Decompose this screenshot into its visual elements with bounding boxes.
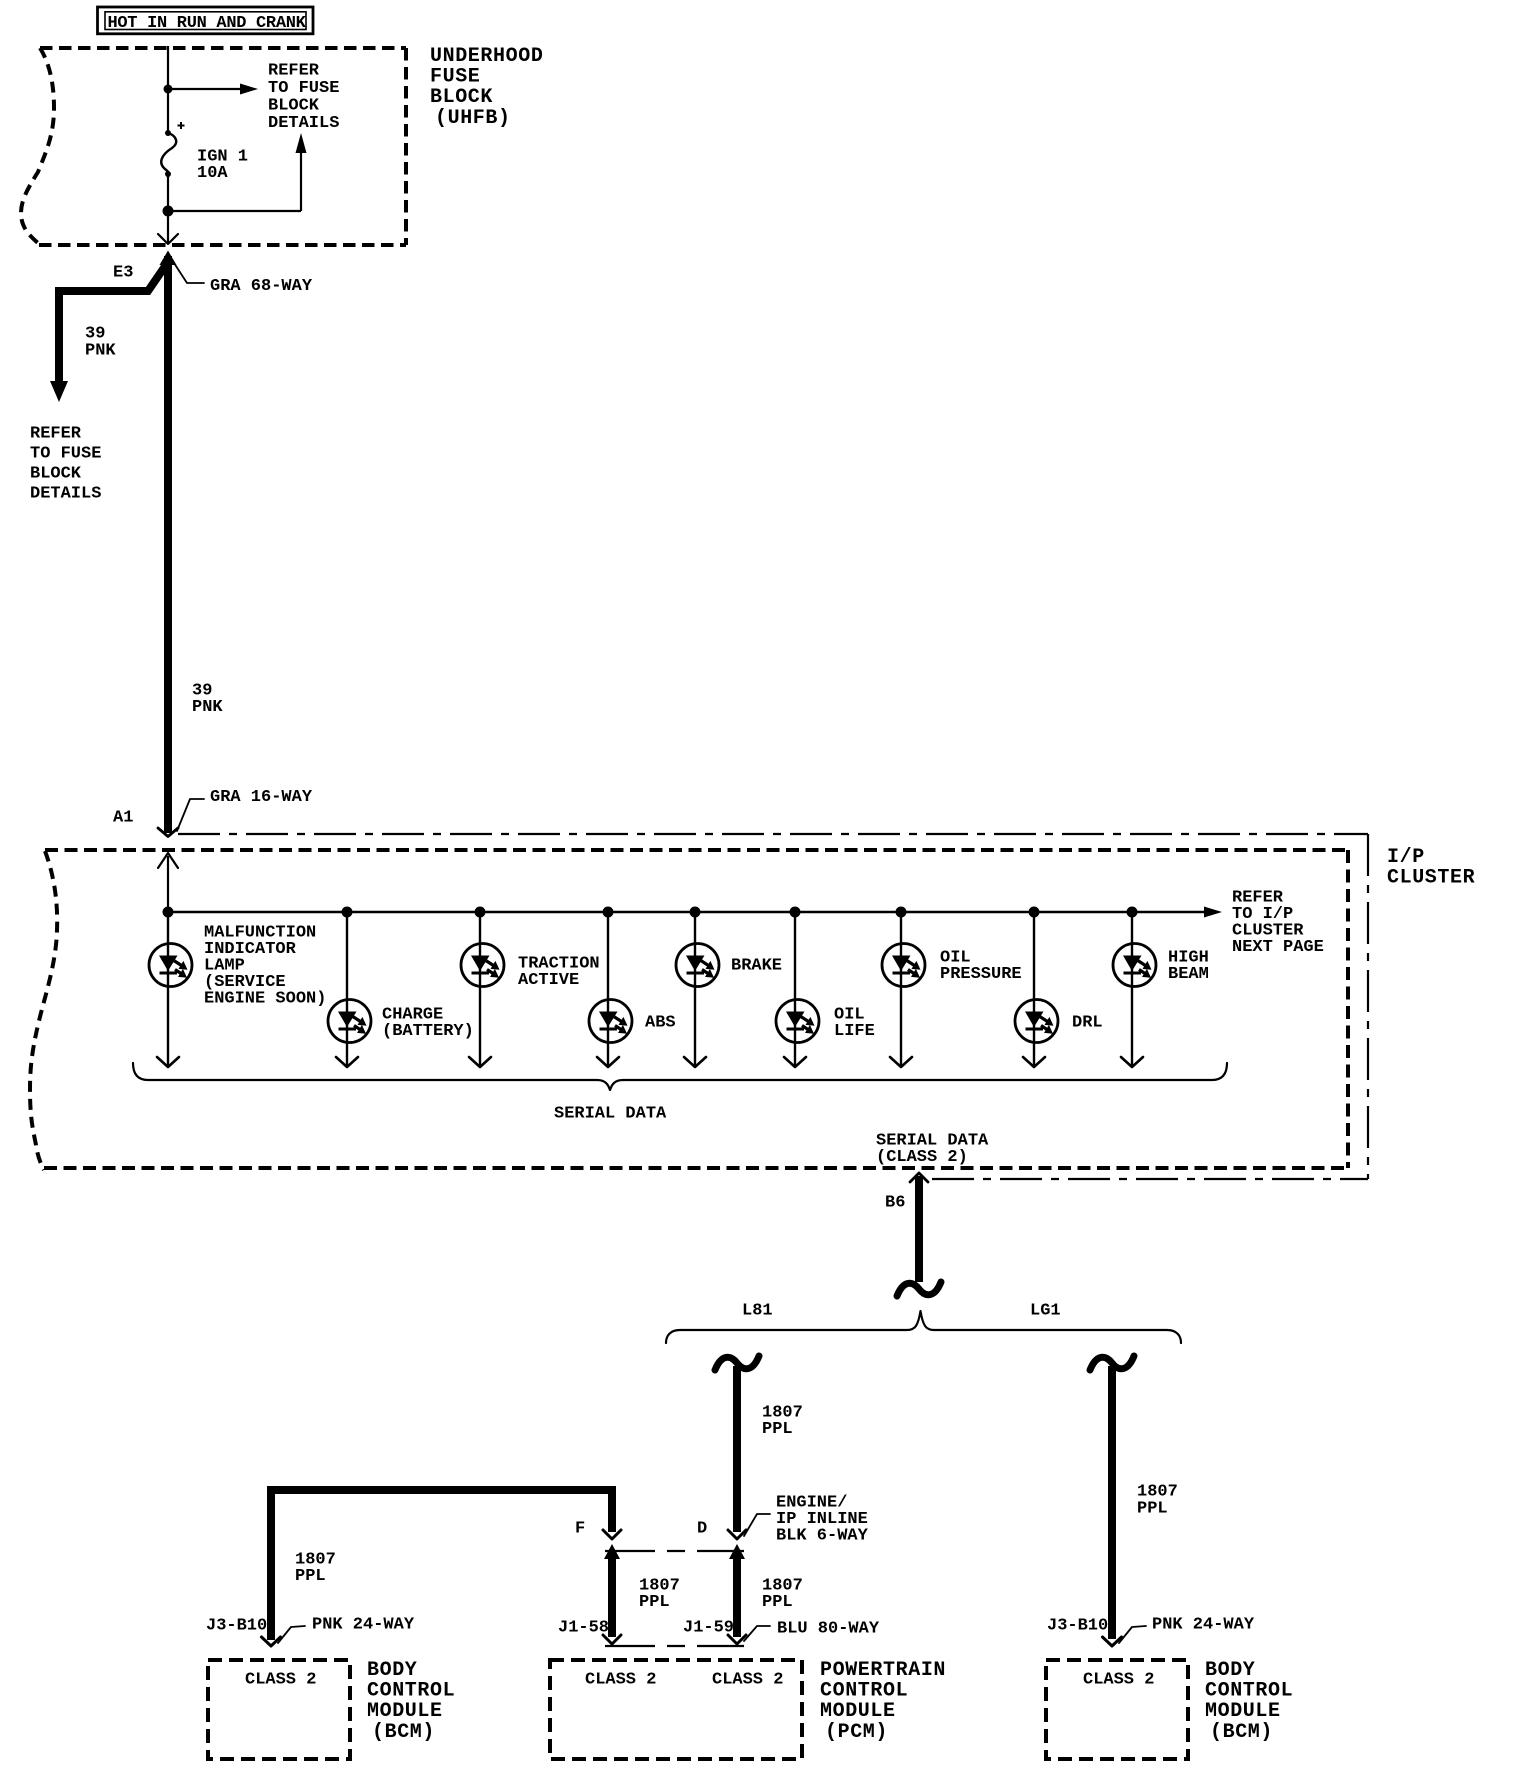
break tilde at B6 xyxy=(897,1282,941,1296)
brace splitting to L81 and LG1 xyxy=(666,1311,1181,1343)
svg-text:MODULE: MODULE xyxy=(820,1700,896,1723)
svg-text:PNK 24-WAY: PNK 24-WAY xyxy=(1152,1616,1255,1635)
svg-text:BLK 6-WAY: BLK 6-WAY xyxy=(776,1527,869,1546)
svg-text:PRESSURE: PRESSURE xyxy=(940,965,1022,984)
junction dot below fuse xyxy=(163,206,174,217)
svg-text:FUSE: FUSE xyxy=(430,66,480,89)
svg-text:GRA 16-WAY: GRA 16-WAY xyxy=(210,788,313,807)
svg-text:E3: E3 xyxy=(113,264,133,283)
svg-text:I/P: I/P xyxy=(1387,846,1425,869)
svg-text:HOT IN RUN AND CRANK: HOT IN RUN AND CRANK xyxy=(108,14,307,33)
bus junction node + wire for OIL LIFE xyxy=(790,907,801,918)
svg-text:POWERTRAIN: POWERTRAIN xyxy=(820,1659,946,1682)
bus junction node + wire for TRACTION xyxy=(475,907,486,918)
LG1 thick wire 1807 PPL xyxy=(1108,1366,1116,1639)
leader to PNK 24-WAY (right) xyxy=(1119,1626,1146,1643)
svg-text:SERIAL DATA: SERIAL DATA xyxy=(554,1105,667,1124)
svg-text:ENGINE SOON): ENGINE SOON) xyxy=(204,990,326,1009)
svg-text:B6: B6 xyxy=(885,1194,905,1213)
svg-text:(PCM): (PCM) xyxy=(825,1721,888,1744)
svg-text:F: F xyxy=(575,1520,585,1539)
svg-text:BLOCK: BLOCK xyxy=(268,97,320,116)
I/P cluster outer chain line xyxy=(178,833,1368,835)
svg-text:DETAILS: DETAILS xyxy=(268,114,339,133)
thick wire from B6 down xyxy=(915,1176,923,1282)
leader to GRA 68-WAY xyxy=(174,263,204,283)
svg-text:(UHFB): (UHFB) xyxy=(435,107,511,130)
svg-text:PNK 24-WAY: PNK 24-WAY xyxy=(312,1616,415,1635)
svg-text:(BCM): (BCM) xyxy=(372,1721,435,1744)
indicator lamp LED OIL PRESSURE xyxy=(882,944,925,987)
arrow up from serial data bus to cluster border xyxy=(167,856,169,912)
arrow to fuse block details (right) xyxy=(168,88,243,90)
thick wire 39 PNK main vertical run xyxy=(164,256,172,833)
indicator lamp LED BRAKE xyxy=(676,944,719,987)
right BCM dashed box xyxy=(1046,1660,1188,1759)
label: HOT IN RUN AND CRANK box xyxy=(98,7,314,34)
svg-text:PNK: PNK xyxy=(192,698,223,717)
left BCM dashed box xyxy=(208,1660,350,1759)
thick wire J1-58 xyxy=(608,1554,616,1637)
female connector D at engine/IP inline xyxy=(728,1530,746,1539)
svg-text:BLOCK: BLOCK xyxy=(30,465,82,484)
female connector at A1 xyxy=(158,828,178,837)
leader to PNK 24-WAY (left) xyxy=(278,1626,305,1643)
wire from junction to connector E3 xyxy=(167,211,169,243)
svg-text:CLASS 2: CLASS 2 xyxy=(245,1671,316,1690)
female connector J3-B10 left BCM xyxy=(262,1637,281,1646)
svg-text:UNDERHOOD: UNDERHOOD xyxy=(430,45,543,68)
female connector at B6 on cluster border xyxy=(910,1173,928,1182)
LG1 branch tilde xyxy=(1090,1356,1134,1370)
svg-text:J3-B10: J3-B10 xyxy=(206,1617,267,1636)
svg-text:MODULE: MODULE xyxy=(1205,1700,1281,1723)
leader to GRA 16-WAY xyxy=(177,799,204,831)
svg-text:J3-B10: J3-B10 xyxy=(1047,1617,1108,1636)
thick wire J1-59 xyxy=(733,1554,741,1637)
svg-text:GRA 68-WAY: GRA 68-WAY xyxy=(210,277,313,296)
bus junction node + wire for BRAKE xyxy=(690,907,701,918)
svg-text:BODY: BODY xyxy=(367,1659,417,1682)
svg-text:(CLASS 2): (CLASS 2) xyxy=(876,1148,968,1167)
bus junction node + wire for HIGH BEAM xyxy=(1127,907,1138,918)
svg-text:PPL: PPL xyxy=(1137,1500,1168,1519)
indicator lamp LED ABS xyxy=(589,1000,632,1043)
SERIAL DATA brace (under indicators) xyxy=(133,1063,1227,1090)
svg-text:PPL: PPL xyxy=(639,1593,670,1612)
svg-text:PPL: PPL xyxy=(295,1567,326,1586)
indicator lamp LED DRL xyxy=(1015,1000,1058,1043)
female connector at J1-58 xyxy=(603,1635,621,1644)
fuse IGN 1 10A symbol xyxy=(165,130,171,136)
svg-text:DRL: DRL xyxy=(1072,1014,1103,1033)
svg-text:D: D xyxy=(697,1520,707,1539)
bus junction node + wire for ABS xyxy=(603,907,614,918)
leader to ENGINE/IP INLINE BLK 6-WAY xyxy=(744,1514,770,1536)
indicator lamp LED TRACTION xyxy=(461,944,504,987)
female connector at J1-59 xyxy=(728,1635,746,1644)
engine/IP inline connector dashed bottom edge xyxy=(605,1645,744,1647)
svg-text:CONTROL: CONTROL xyxy=(367,1680,455,1703)
svg-text:J1-58: J1-58 xyxy=(558,1619,609,1638)
svg-text:BEAM: BEAM xyxy=(1168,965,1209,984)
svg-text:BLU 80-WAY: BLU 80-WAY xyxy=(777,1620,880,1639)
indicator lamp LED HIGH BEAM xyxy=(1113,944,1156,987)
female connector F at engine/IP inline xyxy=(603,1530,621,1539)
female connector J3-B10 right BCM xyxy=(1103,1637,1122,1646)
svg-text:NEXT PAGE: NEXT PAGE xyxy=(1232,938,1324,957)
PCM dashed box xyxy=(550,1660,802,1759)
svg-text:CLUSTER: CLUSTER xyxy=(1387,867,1475,890)
svg-text:TO FUSE: TO FUSE xyxy=(268,79,339,98)
svg-text:CLASS 2: CLASS 2 xyxy=(712,1671,783,1690)
svg-text:LIFE: LIFE xyxy=(834,1022,875,1041)
svg-text:LG1: LG1 xyxy=(1030,1302,1061,1321)
svg-text:REFER: REFER xyxy=(268,62,320,81)
svg-text:L81: L81 xyxy=(742,1302,773,1321)
svg-text:DETAILS: DETAILS xyxy=(30,485,101,504)
svg-text:CLASS 2: CLASS 2 xyxy=(585,1671,656,1690)
svg-text:BLOCK: BLOCK xyxy=(430,86,493,109)
svg-text:TO FUSE: TO FUSE xyxy=(30,445,101,464)
indicator lamp LED CHARGE xyxy=(328,1000,371,1043)
thick branch wire to left fuse-details arrow xyxy=(55,259,170,291)
bus junction node + wire for MIL xyxy=(163,907,174,918)
bus junction node + wire for OIL PRESSURE xyxy=(896,907,907,918)
svg-text:10A: 10A xyxy=(197,164,228,183)
indicator lamp LED MIL xyxy=(149,944,192,987)
node junction dot top xyxy=(164,85,173,94)
svg-text:REFER: REFER xyxy=(30,425,82,444)
bus junction node + wire for DRL xyxy=(1029,907,1040,918)
L81 thick wire 1807 PPL xyxy=(733,1366,741,1532)
svg-text:ACTIVE: ACTIVE xyxy=(518,971,579,990)
svg-text:MODULE: MODULE xyxy=(367,1700,443,1723)
underhood fuse block UHFB dashed box xyxy=(40,46,406,50)
male connector E3 below box xyxy=(160,251,177,266)
leader to BLU 80-WAY xyxy=(744,1626,770,1641)
indicator lamp LED OIL LIFE xyxy=(776,1000,819,1043)
I/P cluster dashed box xyxy=(45,848,1348,852)
svg-text:CONTROL: CONTROL xyxy=(1205,1680,1293,1703)
engine/IP inline connector dashed top edge xyxy=(605,1550,744,1552)
svg-text:BRAKE: BRAKE xyxy=(731,957,782,976)
svg-text:(BATTERY): (BATTERY) xyxy=(382,1022,474,1041)
wire fuse to junction xyxy=(167,174,169,211)
serial data bus line across cluster xyxy=(168,911,1206,914)
svg-text:ABS: ABS xyxy=(645,1014,676,1033)
svg-text:(BCM): (BCM) xyxy=(1210,1721,1273,1744)
male connector arrows at inline top xyxy=(604,1544,620,1559)
L81 branch tilde xyxy=(715,1356,759,1370)
svg-text:CLASS 2: CLASS 2 xyxy=(1083,1671,1154,1690)
wire from hot feed down into fuse xyxy=(167,46,169,133)
svg-text:A1: A1 xyxy=(113,809,133,828)
svg-text:PPL: PPL xyxy=(762,1593,793,1612)
bus junction node + wire for CHARGE xyxy=(342,907,353,918)
branch wire right and up arrow to fuse block details xyxy=(168,210,301,212)
svg-text:PPL: PPL xyxy=(762,1420,793,1439)
thick wire from F up and left down to left BCM xyxy=(271,1486,612,1494)
svg-text:BODY: BODY xyxy=(1205,1659,1255,1682)
female connector at UHFB boundary xyxy=(158,234,178,244)
svg-text:PNK: PNK xyxy=(85,342,116,361)
svg-text:J1-59: J1-59 xyxy=(683,1619,734,1638)
svg-text:CONTROL: CONTROL xyxy=(820,1680,908,1703)
